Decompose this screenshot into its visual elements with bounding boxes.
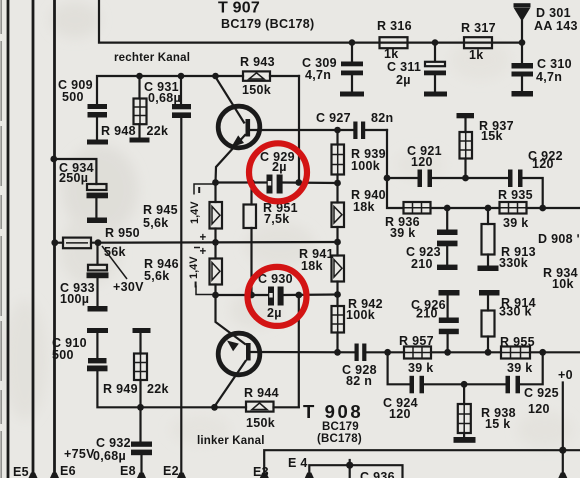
resistor R914 — [479, 290, 536, 352]
node C930 right junction — [295, 292, 302, 299]
svg-text:rechter Kanal: rechter Kanal — [114, 52, 190, 64]
svg-text:R 943: R 943 — [240, 55, 275, 69]
node R951 top junction — [248, 179, 255, 186]
capacitor C910 — [52, 328, 108, 371]
svg-text:2µ: 2µ — [267, 306, 282, 320]
svg-text:+0: +0 — [558, 368, 573, 382]
resistor R938 — [454, 384, 516, 443]
resistor R945 — [143, 183, 222, 243]
resistor R951 — [244, 183, 298, 296]
svg-text:0,68µ: 0,68µ — [93, 449, 126, 463]
wire right edge down — [558, 450, 567, 478]
capacitor C310 — [512, 43, 572, 97]
svg-text:10k: 10k — [552, 277, 574, 291]
svg-text:BC179 (BC178): BC179 (BC178) — [221, 17, 315, 31]
svg-text:4,7n: 4,7n — [536, 70, 562, 84]
svg-text:39 k: 39 k — [408, 361, 434, 375]
svg-text:1,4V: 1,4V — [189, 201, 201, 224]
wire T908 base line — [249, 351, 388, 353]
capacitor C936 box — [360, 470, 395, 478]
svg-text:22k: 22k — [147, 124, 169, 138]
capacitor C930 — [258, 272, 293, 320]
svg-text:39 k: 39 k — [503, 216, 529, 230]
svg-text:R 955: R 955 — [500, 335, 535, 349]
node R938 top junction — [461, 381, 468, 388]
svg-text:AA 143: AA 143 — [534, 19, 578, 33]
capacitor C928 — [342, 344, 377, 389]
svg-text:+30V: +30V — [113, 280, 144, 294]
svg-text:BC179: BC179 — [322, 421, 359, 433]
svg-text:500: 500 — [62, 90, 84, 104]
node R937 bottom junction — [462, 175, 469, 182]
resistor R949 — [103, 328, 169, 407]
wire E3 line — [260, 450, 580, 478]
svg-text:C 925: C 925 — [524, 386, 559, 400]
svg-text:E 4: E 4 — [288, 456, 308, 470]
label E8 — [120, 464, 136, 478]
wire linker Kanal rail — [97, 372, 298, 408]
svg-text:E5: E5 — [13, 465, 29, 478]
svg-text:D 301: D 301 — [536, 6, 571, 20]
resistor R939 — [332, 130, 386, 183]
svg-text:39 k: 39 k — [507, 361, 533, 375]
svg-text:+: + — [200, 246, 207, 258]
svg-text:15 k: 15 k — [485, 417, 511, 431]
resistor R941 — [299, 242, 344, 295]
svg-text:R 945: R 945 — [143, 203, 178, 217]
wire rechter Kanal rail — [97, 76, 299, 104]
svg-text:C 936: C 936 — [360, 470, 395, 478]
diode D301 — [514, 3, 578, 42]
node C924 top junction — [384, 349, 391, 356]
svg-text:+75V: +75V — [64, 447, 95, 461]
svg-text:R 944: R 944 — [244, 386, 279, 400]
node E3 line right junction — [559, 447, 566, 454]
svg-text:(BC178): (BC178) — [317, 433, 362, 445]
svg-text:82n: 82n — [371, 111, 393, 125]
capacitor C932 — [93, 407, 152, 478]
node D301 junction — [519, 39, 526, 46]
label +30V with pointer — [102, 246, 144, 294]
node C931 rail junction — [178, 73, 185, 80]
resistor R316 — [377, 19, 412, 61]
label E6 — [60, 464, 76, 478]
wire C929 node line — [216, 181, 338, 184]
node rail to E6 bus — [51, 239, 58, 246]
node C934 junction on E6 bus — [50, 156, 57, 163]
resistor R913 — [478, 208, 536, 271]
label T908 — [303, 401, 363, 445]
resistor R943 — [240, 55, 275, 97]
node C921 left junction — [384, 175, 391, 182]
svg-text:R 949: R 949 — [103, 382, 138, 396]
resistor R950 — [63, 226, 140, 259]
svg-text:100µ: 100µ — [60, 292, 89, 306]
node R940 rail junction — [334, 239, 341, 246]
wire R943 right corner down to base node — [298, 76, 300, 183]
svg-text:R 935: R 935 — [498, 188, 533, 202]
label E2 — [163, 464, 179, 478]
resistor R937 — [457, 113, 514, 178]
resistor R948 — [101, 76, 168, 143]
svg-text:250µ: 250µ — [59, 171, 88, 185]
svg-text:500: 500 — [52, 348, 74, 362]
transistor T908 — [215, 295, 260, 407]
node R939 bottom junction — [334, 180, 341, 187]
svg-text:5,6k: 5,6k — [143, 216, 169, 230]
resistor R942 — [332, 295, 383, 353]
svg-text:18k: 18k — [301, 259, 323, 273]
capacitor C925 — [506, 376, 559, 416]
svg-text:0,68µ: 0,68µ — [148, 91, 181, 105]
label 1,4V annotation upper — [189, 184, 214, 244]
svg-text:C 932: C 932 — [96, 436, 131, 450]
resistor R955 — [500, 335, 535, 375]
wire E4 line — [305, 465, 403, 478]
node C925 top junction — [539, 349, 546, 356]
wire C930 right node vertical — [298, 295, 300, 407]
label E5 — [13, 465, 29, 478]
svg-text:82 n: 82 n — [346, 374, 372, 388]
node R939 top junction — [334, 127, 341, 134]
svg-text:R 950: R 950 — [105, 226, 140, 240]
capacitor C931 — [144, 76, 191, 118]
wire left edge faint line — [0, 0, 2, 478]
wire C931 to E2 line — [177, 118, 186, 478]
node T908 collector junction — [211, 404, 218, 411]
svg-text:15k: 15k — [481, 129, 503, 143]
wire center bias rail — [55, 241, 338, 244]
svg-text:R 948: R 948 — [101, 124, 136, 138]
svg-text:T 908: T 908 — [303, 401, 363, 422]
capacitor C934 — [54, 159, 108, 223]
svg-text:1k: 1k — [384, 47, 399, 61]
svg-text:120: 120 — [389, 407, 411, 421]
node C311 top junction — [432, 39, 439, 46]
capacitor C924 — [383, 376, 424, 421]
svg-text:E8: E8 — [120, 464, 136, 478]
svg-text:22k: 22k — [147, 382, 169, 396]
svg-text:2µ: 2µ — [272, 160, 287, 174]
node C923 top junction — [444, 205, 451, 212]
svg-text:7,5k: 7,5k — [264, 212, 290, 226]
red highlight circle around C930 — [248, 267, 307, 326]
node R941 bottom junction — [334, 291, 341, 298]
svg-text:2µ: 2µ — [396, 73, 411, 87]
wire R936 R935 line — [431, 207, 580, 209]
svg-text:E2: E2 — [163, 464, 179, 478]
resistor R935 — [498, 188, 533, 230]
svg-text:150k: 150k — [242, 83, 271, 97]
resistor R936 — [385, 202, 431, 240]
capacitor C309 — [302, 43, 364, 97]
svg-text:R 316: R 316 — [377, 19, 412, 33]
node T907 collector junction — [212, 73, 219, 80]
capacitor C922 — [508, 149, 563, 187]
svg-text:100k: 100k — [346, 308, 375, 322]
capacitor C311 — [387, 43, 447, 97]
svg-text:C 930: C 930 — [258, 272, 293, 286]
label rechter Kanal — [114, 52, 190, 64]
node C926 bottom junction — [444, 349, 451, 356]
node T907 emitter junction — [212, 179, 219, 186]
wire C930 node line — [216, 293, 338, 296]
node R948 rail junction — [136, 73, 143, 80]
svg-text:E6: E6 — [60, 464, 76, 478]
label R934 — [543, 266, 578, 291]
svg-text:100k: 100k — [351, 159, 380, 173]
node R945 R946 junction — [212, 239, 219, 246]
wire E6 bus line — [50, 0, 59, 478]
capacitor C929 — [260, 150, 295, 194]
capacitor C933 — [60, 243, 109, 312]
capacitor C927 — [316, 111, 393, 139]
resistor R944 — [244, 386, 279, 430]
svg-text:1k: 1k — [469, 48, 484, 62]
label D908 — [538, 232, 580, 246]
wire T907 box corner — [99, 0, 522, 43]
node R950 right junction — [95, 239, 102, 246]
red highlight circle around C929 — [249, 143, 307, 201]
svg-text:C 310: C 310 — [537, 57, 572, 71]
svg-text:330 k: 330 k — [499, 305, 532, 319]
svg-text:39 k: 39 k — [390, 226, 416, 240]
label E4 — [288, 456, 308, 470]
node T908 emitter junction — [212, 292, 219, 299]
svg-text:5,6k: 5,6k — [144, 269, 170, 283]
resistor R957 — [399, 334, 434, 375]
capacitor C923 — [406, 208, 458, 271]
svg-text:C 927: C 927 — [316, 111, 351, 125]
wire base line corner to filter — [387, 130, 404, 208]
svg-text:T 907: T 907 — [218, 0, 260, 17]
capacitor C909 — [58, 78, 108, 145]
node R914 bottom junction — [485, 349, 492, 356]
node R949 rail junction — [137, 404, 144, 411]
wire +0 vertical — [562, 383, 564, 451]
svg-text:+: + — [200, 232, 207, 244]
svg-text:linker Kanal: linker Kanal — [197, 435, 265, 447]
svg-text:D 908 ʹ: D 908 ʹ — [538, 232, 580, 246]
label +0 — [558, 368, 573, 382]
node C936 junction — [346, 460, 353, 478]
wire bus line 2 — [29, 0, 38, 478]
svg-text:18k: 18k — [353, 200, 375, 214]
resistor R940 — [332, 183, 386, 242]
svg-text:120: 120 — [532, 157, 554, 171]
svg-text:R 317: R 317 — [461, 21, 496, 35]
node R951 bottom junction — [248, 292, 255, 299]
wire C924 C925 lower line — [388, 352, 543, 384]
node R942 bottom junction — [334, 349, 341, 356]
transistor T907 — [216, 77, 260, 183]
svg-text:150k: 150k — [246, 416, 275, 430]
resistor R946 — [144, 242, 222, 295]
svg-text:R 957: R 957 — [399, 334, 434, 348]
node C922 bottom junction — [539, 205, 546, 212]
capacitor C921 — [407, 144, 442, 187]
node R913 top junction — [485, 205, 492, 212]
label 1,4V annotation lower — [188, 246, 214, 295]
svg-text:4,7n: 4,7n — [305, 68, 331, 82]
label +75V — [64, 447, 95, 461]
wire R957 R955 main line — [388, 351, 580, 353]
svg-text:330k: 330k — [499, 256, 528, 270]
svg-text:E3: E3 — [253, 465, 269, 478]
svg-text:120: 120 — [411, 155, 433, 169]
capacitor C926 — [411, 290, 460, 352]
wire T907 base line — [248, 129, 387, 131]
label E3 — [253, 465, 269, 478]
node C309 top junction — [349, 39, 356, 46]
svg-text:210: 210 — [411, 257, 433, 271]
node C929 right junction — [295, 179, 302, 186]
label T907 — [218, 0, 315, 31]
svg-text:120: 120 — [528, 402, 550, 416]
svg-text:1,4V: 1,4V — [188, 256, 200, 279]
svg-text:210: 210 — [416, 307, 438, 321]
wire C921 line — [387, 178, 543, 208]
wire E5 bus line — [7, 0, 10, 478]
label linker Kanal — [197, 435, 265, 447]
svg-text:C 311: C 311 — [387, 60, 421, 74]
resistor R317 — [461, 21, 496, 62]
